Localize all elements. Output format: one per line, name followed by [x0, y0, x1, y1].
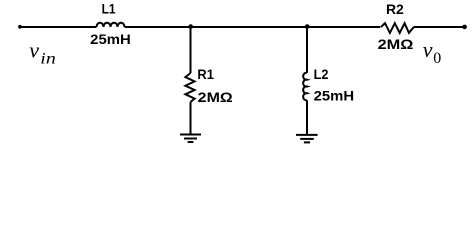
svg-text:in: in: [40, 50, 56, 67]
svg-text:v: v: [29, 38, 39, 63]
svg-text:2MΩ: 2MΩ: [378, 36, 414, 52]
svg-text:v: v: [423, 37, 433, 62]
svg-text:2MΩ: 2MΩ: [198, 89, 233, 105]
svg-text:25mH: 25mH: [314, 88, 355, 104]
svg-text:25mH: 25mH: [90, 31, 131, 47]
svg-text:L2: L2: [314, 66, 329, 82]
svg-text:R2: R2: [386, 1, 404, 17]
svg-text:0: 0: [433, 50, 441, 67]
svg-text:R1: R1: [197, 66, 214, 82]
svg-text:L1: L1: [102, 0, 116, 16]
